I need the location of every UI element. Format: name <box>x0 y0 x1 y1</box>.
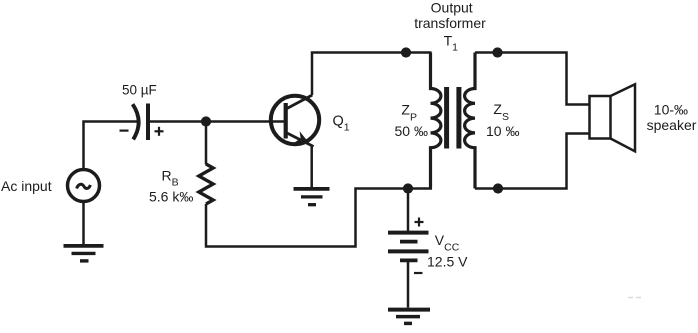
svg-text:10 ‰: 10 ‰ <box>486 123 519 139</box>
svg-text:transformer: transformer <box>414 15 486 31</box>
transistor base bar <box>284 103 288 139</box>
wire emitter down to ground <box>310 145 313 188</box>
svg-text:Q1: Q1 <box>333 114 350 134</box>
transformer secondary coil ZS <box>465 53 475 189</box>
wire battery bottom lead <box>407 262 410 308</box>
resistor RB zigzag <box>199 164 213 204</box>
node at capacitor/RB junction <box>201 116 211 126</box>
svg-text:T1: T1 <box>444 32 459 53</box>
ground under AC source <box>64 246 104 261</box>
battery plus sign <box>415 218 424 227</box>
node bottom of primary / battery <box>403 183 413 193</box>
svg-text:50 µF: 50 µF <box>122 82 157 97</box>
svg-text:RB: RB <box>162 168 179 189</box>
svg-text:ZP: ZP <box>401 101 417 123</box>
transformer primary coil ZP <box>431 53 441 189</box>
node top of primary <box>401 47 411 57</box>
transistor collector diagonal <box>286 95 312 109</box>
battery minus sign <box>414 272 423 274</box>
wire AC source top to capacitor <box>84 122 138 170</box>
wire RB bottom run to battery node <box>206 189 432 247</box>
capacitor C1 straight positive plate <box>146 104 150 141</box>
svg-text:speaker: speaker <box>647 117 697 133</box>
wire capacitor to transistor base <box>150 120 287 123</box>
svg-text:50 ‰: 50 ‰ <box>395 123 428 139</box>
wire node down to RB <box>205 122 208 165</box>
wire secondary top to speaker <box>475 53 590 105</box>
svg-text:ZS: ZS <box>493 101 509 123</box>
battery VCC plates <box>388 233 429 261</box>
transformer core bars <box>444 87 449 149</box>
transistor emitter arrow <box>294 131 308 142</box>
svg-text:VCC: VCC <box>435 232 460 253</box>
node bottom of secondary <box>493 183 503 193</box>
transistor emitter diagonal <box>286 133 314 147</box>
wire AC source bottom to ground <box>82 202 85 244</box>
svg-text:Output: Output <box>431 0 473 16</box>
speaker horn <box>611 84 636 151</box>
svg-text:12.5 V: 12.5 V <box>427 253 468 269</box>
capacitor minus sign <box>120 130 129 132</box>
ground under battery <box>388 310 430 324</box>
capacitor C1 curved negative plate <box>133 104 139 139</box>
faint scan artifact <box>628 297 641 299</box>
ground under emitter <box>294 189 330 205</box>
transistor Q1 circle <box>271 96 319 144</box>
wire battery top lead <box>407 189 410 232</box>
AC source V1 <box>68 170 100 202</box>
speaker LS1 box <box>590 96 611 139</box>
wire secondary bottom to speaker <box>475 134 590 189</box>
svg-text:10-‰: 10-‰ <box>654 102 688 118</box>
svg-text:Ac input: Ac input <box>1 178 52 194</box>
capacitor plus sign <box>155 127 164 136</box>
svg-text:5.6 k‰: 5.6 k‰ <box>149 189 193 205</box>
node top of secondary <box>492 47 502 57</box>
wire collector up and to transformer primary <box>312 53 432 96</box>
